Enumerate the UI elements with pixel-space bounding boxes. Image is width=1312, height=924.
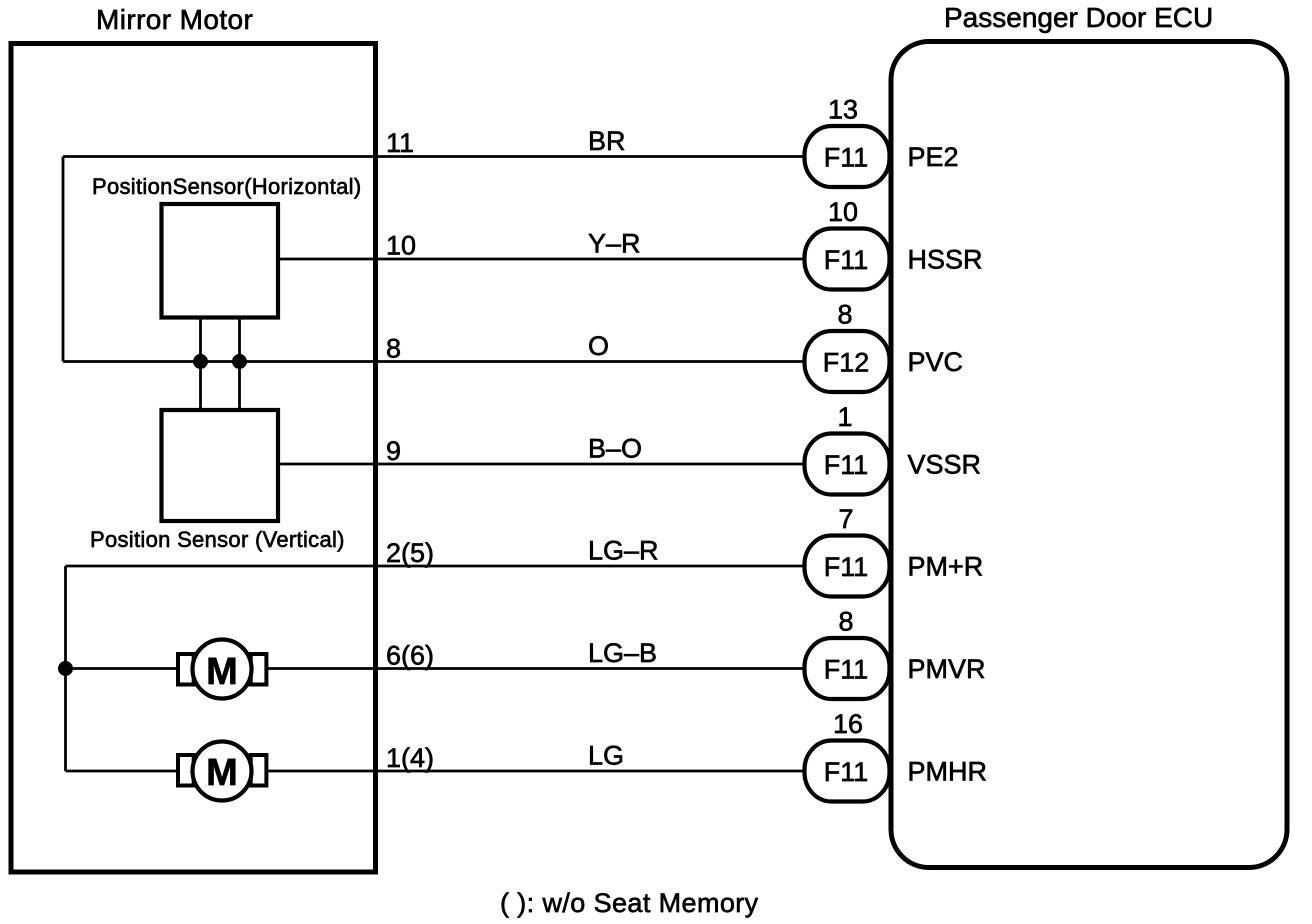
svg-text:LG–B: LG–B — [588, 638, 657, 668]
svg-text:Passenger Door ECU: Passenger Door ECU — [944, 2, 1213, 33]
svg-text:8: 8 — [837, 300, 852, 330]
svg-text:1(4): 1(4) — [386, 743, 434, 773]
svg-text:PM+R: PM+R — [908, 552, 984, 582]
svg-text:F11: F11 — [824, 450, 869, 480]
connector F11 pin8 — [805, 607, 890, 700]
svg-text:10: 10 — [828, 197, 858, 227]
junction dot left sensor stub — [193, 354, 208, 369]
svg-text:11: 11 — [386, 128, 414, 158]
svg-text:PMVR: PMVR — [908, 654, 986, 684]
Passenger Door ECU box U1 — [891, 42, 1287, 868]
wire B-O pin9 to VSSR — [278, 463, 806, 466]
wire O pin8 to PVC — [63, 360, 806, 363]
motor M1 (vertical mirror motor) — [178, 640, 266, 699]
svg-text:8: 8 — [838, 607, 853, 637]
wire Y-R pin10 to HSSR — [278, 258, 806, 261]
svg-text:7: 7 — [838, 504, 853, 534]
Mirror Motor enclosure box — [11, 44, 376, 873]
svg-text:Y–R: Y–R — [588, 229, 641, 259]
svg-text:B–O: B–O — [588, 434, 642, 464]
svg-text:O: O — [588, 331, 609, 361]
junction dot right sensor stub — [232, 354, 247, 369]
svg-text:PositionSensor(Horizontal): PositionSensor(Horizontal) — [92, 174, 361, 199]
junction dot motor common — [58, 661, 73, 676]
svg-text:M: M — [206, 651, 238, 693]
svg-text:BR: BR — [588, 126, 626, 156]
svg-text:( ): w/o Seat Memory: ( ): w/o Seat Memory — [500, 888, 759, 918]
svg-text:F11: F11 — [824, 655, 869, 685]
position sensor (vertical) square — [162, 410, 279, 521]
svg-text:VSSR: VSSR — [908, 450, 982, 480]
position sensor (horizontal) square — [162, 204, 279, 318]
svg-text:LG: LG — [588, 741, 624, 771]
svg-text:16: 16 — [833, 709, 863, 739]
svg-text:8: 8 — [386, 334, 401, 364]
svg-text:F12: F12 — [823, 348, 870, 378]
svg-text:F11: F11 — [824, 757, 869, 787]
svg-text:LG–R: LG–R — [588, 536, 659, 566]
connector F11 pin16 — [805, 709, 890, 802]
svg-text:PE2: PE2 — [908, 142, 959, 172]
wire sensor stub left — [199, 317, 202, 410]
wire sensor stub right — [238, 317, 241, 410]
svg-text:M: M — [206, 752, 238, 794]
svg-text:Position Sensor (Vertical): Position Sensor (Vertical) — [90, 527, 345, 552]
svg-text:6(6): 6(6) — [386, 641, 434, 671]
svg-text:2(5): 2(5) — [386, 538, 434, 568]
svg-text:HSSR: HSSR — [908, 245, 983, 275]
connector F11 pin10 — [805, 197, 890, 290]
connector F11 pin13 — [805, 95, 890, 188]
wire vertical motor common — [64, 566, 67, 771]
svg-text:F11: F11 — [824, 552, 869, 582]
wire LG-B pin6(6) to PMVR right segment — [266, 667, 806, 670]
svg-text:PMHR: PMHR — [908, 757, 988, 787]
svg-text:1: 1 — [837, 402, 852, 432]
svg-text:F11: F11 — [824, 245, 869, 275]
svg-text:9: 9 — [386, 436, 401, 466]
wire LG-B pin6(6) to PMVR left segment — [66, 667, 178, 670]
wire LG pin1(4) to PMHR right segment — [266, 770, 806, 773]
wire LG-R pin2(5) to PM+R — [66, 565, 807, 568]
connector F11 pin7 — [805, 504, 890, 597]
svg-text:PVC: PVC — [908, 347, 964, 377]
connector F11 pin1 — [805, 402, 890, 495]
wire LG pin1(4) to PMHR left segment — [66, 770, 178, 773]
svg-text:Mirror Motor: Mirror Motor — [96, 4, 253, 35]
svg-text:13: 13 — [828, 95, 858, 125]
connector F12 pin8 — [805, 300, 890, 393]
wire BR pin11 to PE2 — [63, 155, 806, 158]
motor M2 (horizontal mirror motor) — [178, 742, 266, 801]
wire vertical link pin11 to pin8 net — [62, 157, 65, 362]
svg-text:10: 10 — [386, 231, 416, 261]
svg-text:F11: F11 — [824, 143, 869, 173]
